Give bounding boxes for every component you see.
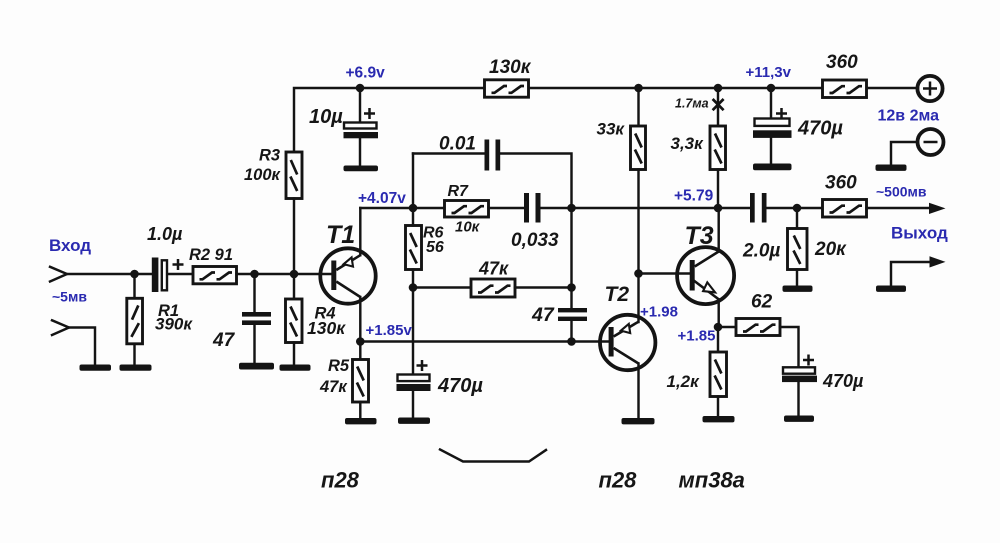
wire T2 emitter lead [637,274,639,323]
resistor R5 47к [353,360,369,403]
node junction R1/input [130,270,139,279]
node T3 emitter +1.85 [714,323,723,332]
svg-text:+1.98: +1.98 [640,304,678,321]
wire 62 left lead [718,326,736,328]
wire 47к right lead [515,286,572,288]
wire top supply rail right segment to + terminal [867,87,919,89]
node 20к junction [793,204,802,213]
svg-text:33к: 33к [597,120,626,139]
svg-text:47: 47 [531,304,555,326]
node junction R3/R4/base [290,270,299,279]
wire R5 top lead [359,342,361,360]
node 3,3к top rail [714,84,723,93]
capacitor 0.01 [485,140,501,171]
wire 2.0μ to 360 [767,207,823,209]
svg-text:п28: п28 [321,468,360,493]
ground 470μ top [753,164,792,171]
input jack arrow top [50,267,67,282]
node 33к top rail [634,84,643,93]
svg-text:47: 47 [212,330,236,351]
svg-text:62: 62 [751,292,773,313]
wire 360 to output arrow [867,207,931,209]
node 47cap/+1.85 junction [567,337,576,346]
svg-text:360: 360 [826,52,858,73]
wire R1 bottom lead [133,344,135,365]
node R6/47к junction [409,283,418,292]
wire 0,033 to mid junction [541,207,751,209]
svg-text:T2: T2 [605,283,630,306]
wire 470μ branch down [412,288,414,375]
wire 62 to 470μ right [780,327,799,367]
svg-text:12в 2ма: 12в 2ма [878,108,940,125]
svg-text:3,3к: 3,3к [671,134,705,153]
wire R5 bottom lead [359,402,361,418]
svg-text:20к: 20к [814,239,847,260]
svg-text:Вход: Вход [49,236,91,255]
node +6.9v [356,84,365,93]
terminal − 12в [918,129,944,155]
wire junction to T3 base [639,272,690,274]
wire − terminal to ground [891,142,918,165]
ground 470μ left [398,418,430,424]
transistor T1 [320,248,375,303]
wire 20к top lead [796,208,798,229]
wire top supply rail left segment [294,88,485,152]
node +5.79 [714,204,723,213]
capacitor 47 input [242,312,271,325]
svg-text:п28: п28 [599,468,638,493]
wire 470μ top lead [770,88,772,119]
svg-text:47к: 47к [478,259,509,279]
ground R4 [280,365,311,371]
resistor 360 output [823,200,867,218]
polarity + of 1.0μ [173,259,184,270]
wire 0.01 left lead [413,152,485,154]
capacitor 470μ right [782,367,817,382]
input jack arrow bottom [52,320,69,335]
svg-text:2.0µ: 2.0µ [742,241,780,262]
svg-text:R5: R5 [328,357,350,375]
capacitor 2.0μ [750,193,767,223]
wire 3,3к bottom lead [717,170,719,209]
wire 47к left lead [413,286,471,288]
wire mid line +4.07 segment [360,207,444,209]
node 47к/47cap junction [567,283,576,292]
node T1 collector +1.85 [356,337,365,346]
svg-text:1,2к: 1,2к [667,372,701,391]
svg-text:мп38а: мп38а [679,468,745,493]
ground 47 cap [239,363,274,370]
wire R6 top lead [412,208,414,226]
wire vertical x571 mid [570,208,572,308]
svg-text:~500мв: ~500мв [876,184,927,200]
resistor R3 100к [286,152,302,199]
ground 1,2к [703,416,735,422]
wire T2 collector lead [637,364,639,419]
svg-text:130к: 130к [307,318,346,338]
ground R5 [345,418,377,424]
svg-text:T3: T3 [685,222,714,250]
capacitor C 1.0μ [152,258,167,293]
svg-text:100к: 100к [244,166,282,184]
svg-text:130к: 130к [489,57,532,78]
svg-text:10к: 10к [455,219,481,236]
wire 47 cap top lead [253,274,255,312]
wire input line [67,273,152,275]
wire 10μ top lead [359,88,361,123]
wire 0.01 branch up [412,154,414,209]
resistor 47к feedback [471,279,515,297]
wire 10μ bottom lead [359,138,361,165]
resistor 130к top [485,80,529,97]
wire 1,2к bottom lead [717,397,719,417]
svg-text:56: 56 [426,239,444,256]
ground T2 [622,418,655,424]
wire 470μ top bottom lead [770,138,772,164]
svg-text:+5.79: +5.79 [674,188,714,205]
resistor 20к [788,229,808,270]
wire 470μ left bottom lead [412,391,414,418]
ground R1 [120,365,152,371]
transistor T3 [677,247,734,304]
resistor 3,3к [710,126,726,170]
ground 470μ right [784,416,814,422]
svg-text:+1.85v: +1.85v [366,322,413,339]
wire 47 mid bottom lead [570,321,572,342]
ground − terminal [876,165,907,171]
wire 20к bottom lead [796,270,798,286]
resistor R2 91 [193,267,237,284]
wire 33к top lead [637,88,639,126]
wire T1 emitter to +4.07 line [359,208,361,255]
node junction 47 cap [250,270,259,279]
wire 47 cap bottom lead [253,325,255,363]
svg-text:R7: R7 [448,183,470,200]
wire T1 collector to +1.85 line [359,297,361,342]
resistor R6 56 [406,226,422,270]
polarity + of 470μ left [417,360,428,371]
svg-text:+6.9v: +6.9v [346,65,386,82]
break X mark 1.7ма [713,99,724,110]
resistor 33к [631,126,646,170]
svg-text:+4.07v: +4.07v [358,190,406,207]
transistor T2 [600,315,655,370]
node mid junction x571 [567,204,576,213]
wire R6 bottom lead [412,270,414,288]
svg-text:470µ: 470µ [437,375,483,397]
resistor R4 130к [286,299,303,343]
wire top supply rail middle segment [529,87,823,89]
svg-text:+11,3v: +11,3v [746,64,792,81]
wire output ground return [891,262,930,286]
wire R4 top lead [293,274,295,299]
wire input ground return [69,328,95,365]
resistor 1,2к [710,352,727,397]
wire 1.0μ to R2 [168,273,193,275]
node +4.07v [409,204,418,213]
capacitor 470μ emitter left [397,375,431,392]
wire 3,3к top lead [717,88,719,126]
wire +1.85 line to T2 base [360,340,608,342]
ground output [876,286,906,292]
svg-text:R2 91: R2 91 [189,246,233,264]
capacitor 10μ [344,123,379,139]
wire R4 bottom lead [293,343,295,365]
svg-text:T1: T1 [326,221,355,249]
svg-text:Выход: Выход [891,224,948,243]
node T2 emitter / T3 base junction [634,269,643,278]
svg-text:R3: R3 [259,147,280,165]
node +11,3v [767,84,776,93]
svg-text:10µ: 10µ [309,106,343,128]
wire R1 top lead [133,274,135,298]
wire R7 to 0,033 [489,207,525,209]
svg-text:390к: 390к [155,315,193,334]
polarity + of 10μ [364,108,375,119]
svg-text:470µ: 470µ [797,118,843,140]
svg-text:470µ: 470µ [822,371,864,391]
wire 0.01 right lead [500,154,571,209]
capacitor 0,033 [524,193,541,223]
svg-text:1.7ма: 1.7ма [675,97,709,111]
terminal + 12в [917,76,942,101]
bracket mark [440,450,546,462]
wire T3 collector to +5.79 [717,208,719,252]
svg-text:0,033: 0,033 [511,230,559,251]
capacitor 470μ top right [753,119,792,138]
resistor R7 10к [445,201,489,218]
output arrow bottom [930,256,946,267]
wire 1,2к top lead [717,327,719,352]
polarity + of 470μ right [803,355,814,366]
capacitor 47 mid [558,308,587,321]
resistor R1 390к [127,298,143,344]
wire R3 bottom lead [293,199,295,275]
svg-text:1.0µ: 1.0µ [147,224,183,244]
ground 10μ [344,166,379,172]
wire T3 emitter lead [717,300,719,328]
output arrow top [929,203,946,214]
ground input jack [80,365,112,371]
svg-text:360: 360 [825,173,857,194]
wire 470μ right bottom lead [797,382,799,415]
resistor 360 top [823,80,867,98]
svg-text:~5мв: ~5мв [52,289,87,305]
svg-text:47к: 47к [319,378,348,396]
ground 20к [783,286,813,292]
resistor 62 [736,319,780,336]
svg-text:0.01: 0.01 [439,134,476,155]
polarity + of 470μ top [776,108,787,119]
wire R2 to T1 base [237,273,332,275]
wire 33к bottom to T3 base node [637,170,639,274]
svg-text:+1.85: +1.85 [678,328,716,345]
